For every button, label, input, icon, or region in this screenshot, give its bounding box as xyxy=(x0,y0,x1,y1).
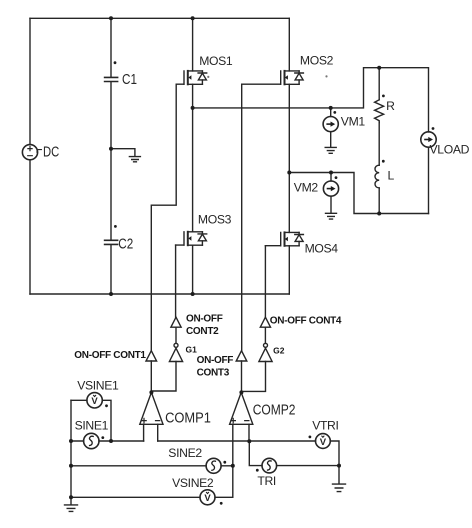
svg-text:C1: C1 xyxy=(122,71,137,88)
svg-text:TRI: TRI xyxy=(257,474,276,488)
svg-text:VSINE1: VSINE1 xyxy=(77,379,119,393)
svg-text:C2: C2 xyxy=(118,235,133,252)
svg-text:MOS4: MOS4 xyxy=(305,241,339,255)
svg-text:V: V xyxy=(91,396,98,407)
svg-text:V: V xyxy=(204,493,211,504)
svg-text:ON-OFF: ON-OFF xyxy=(186,313,223,324)
svg-text:G2: G2 xyxy=(273,346,285,356)
svg-text:ON-OFF CONT1: ON-OFF CONT1 xyxy=(74,350,146,361)
svg-text:MOS2: MOS2 xyxy=(300,53,334,67)
svg-text:COMP1: COMP1 xyxy=(165,408,211,425)
svg-text:ON-OFF: ON-OFF xyxy=(197,355,234,366)
svg-text:ON-OFF CONT4: ON-OFF CONT4 xyxy=(270,316,342,327)
svg-text:VM2: VM2 xyxy=(294,181,319,195)
svg-text:VTRI: VTRI xyxy=(312,418,338,432)
svg-text:VM1: VM1 xyxy=(341,115,366,129)
svg-text:CONT2: CONT2 xyxy=(186,326,219,337)
svg-text:L: L xyxy=(388,168,395,182)
svg-text:VSINE2: VSINE2 xyxy=(172,476,214,490)
svg-text:R: R xyxy=(386,99,395,113)
svg-text:COMP2: COMP2 xyxy=(253,402,296,418)
svg-text:G1: G1 xyxy=(186,345,198,355)
svg-text:VLOAD: VLOAD xyxy=(430,142,470,156)
svg-text:DC: DC xyxy=(43,143,60,160)
svg-text:SINE1: SINE1 xyxy=(75,418,109,432)
svg-text:MOS1: MOS1 xyxy=(199,54,233,68)
svg-text:MOS3: MOS3 xyxy=(198,213,232,227)
svg-text:SINE2: SINE2 xyxy=(168,446,202,460)
svg-text:V: V xyxy=(320,437,327,448)
svg-text:CONT3: CONT3 xyxy=(197,367,230,378)
